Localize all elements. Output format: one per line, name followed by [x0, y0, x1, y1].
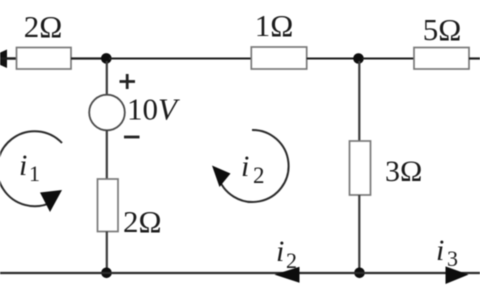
resistor R2 1ohm (top middle) [251, 47, 306, 69]
wire: resistor 3ohm to node D [358, 195, 360, 272]
mesh current loop arrow i1 [0, 131, 62, 212]
node D junction dot [354, 268, 365, 279]
svg-text:5Ω: 5Ω [423, 12, 462, 47]
svg-text:i: i [241, 150, 249, 183]
mesh current loop arrow i2 [212, 130, 289, 202]
wire: resistor 1ohm to node B [307, 58, 355, 60]
svg-text:1: 1 [29, 161, 40, 186]
bottom rail wire [0, 272, 480, 274]
resistor R5 3ohm (vertical middle) [350, 141, 371, 195]
voltage source U1 circle [89, 95, 125, 131]
svg-text:2: 2 [253, 163, 265, 188]
wire: source to resistor 2ohm vertical [106, 130, 108, 180]
svg-text:10V: 10V [127, 92, 180, 127]
svg-text:i: i [436, 234, 444, 267]
current arrow i2 on bottom rail (pointing left) [275, 267, 300, 283]
minus sign of source [124, 136, 140, 139]
svg-text:i: i [276, 235, 284, 268]
svg-text:1Ω: 1Ω [255, 8, 294, 43]
node A junction dot [101, 53, 112, 64]
wire: node A to resistor 1ohm [109, 58, 252, 60]
wire: resistor 2ohm vertical to node C [106, 232, 108, 273]
wire: node A down to voltage source [106, 61, 108, 96]
wire: resistor 2ohm to node A [71, 57, 104, 59]
node C junction dot [101, 268, 112, 279]
resistor R1 2ohm (top left) [17, 48, 72, 70]
svg-text:3: 3 [447, 246, 458, 271]
resistor R4 2ohm (vertical) [98, 179, 119, 232]
node B junction dot [353, 53, 364, 64]
current arrow i3 on bottom rail (pointing right) [446, 266, 469, 284]
svg-text:i: i [19, 149, 27, 182]
wire: node B down to resistor 3ohm [358, 61, 360, 142]
wire: resistor 5ohm to right edge [469, 57, 480, 59]
svg-text:3Ω: 3Ω [385, 155, 422, 188]
current arrow (left edge, pointing left) [0, 50, 7, 69]
svg-text:2Ω: 2Ω [123, 204, 162, 239]
wire: left edge to resistor 2ohm [0, 57, 17, 60]
wire: node B to resistor 5ohm [362, 58, 414, 60]
plus sign of source [120, 74, 136, 89]
resistor R3 5ohm (top right) [414, 48, 469, 70]
svg-text:2: 2 [286, 248, 297, 273]
svg-text:2Ω: 2Ω [24, 9, 63, 44]
